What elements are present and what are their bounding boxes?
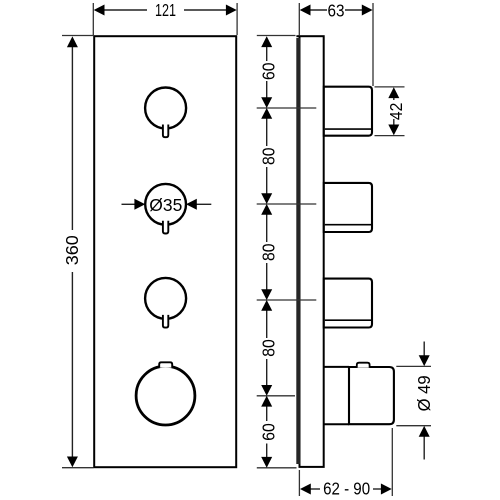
- svg-text:Ø35: Ø35: [149, 195, 182, 215]
- svg-text:62 - 90: 62 - 90: [323, 479, 370, 499]
- svg-text:60: 60: [258, 62, 278, 80]
- svg-text:121: 121: [155, 0, 176, 20]
- svg-text:80: 80: [258, 243, 278, 261]
- svg-text:360: 360: [62, 235, 82, 265]
- svg-text:80: 80: [258, 147, 278, 165]
- svg-text:63: 63: [328, 1, 345, 21]
- svg-text:80: 80: [258, 339, 278, 357]
- svg-text:60: 60: [258, 423, 278, 441]
- svg-text:42: 42: [386, 103, 406, 121]
- svg-text:Ø 49: Ø 49: [414, 375, 434, 411]
